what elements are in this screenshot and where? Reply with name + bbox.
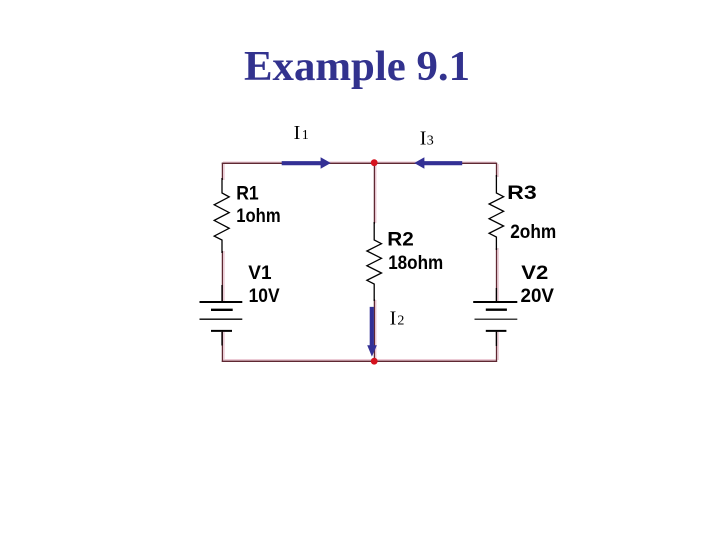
arrow I3 (current into top node, pointing left) <box>414 157 462 169</box>
battery V2 <box>473 288 517 346</box>
svg-text:I: I <box>420 127 427 149</box>
svg-text:18ohm: 18ohm <box>388 252 443 274</box>
wire right upper (top-right corner to resistor R3) <box>496 163 498 177</box>
svg-text:10V: 10V <box>249 285 280 307</box>
svg-text:2: 2 <box>397 314 404 329</box>
svg-text:20V: 20V <box>521 285 555 307</box>
svg-text:3: 3 <box>427 133 434 148</box>
wire bottom (bottom-left corner to bottom-right corner) <box>222 360 497 362</box>
wire top (node1 to node2 across top) <box>222 162 497 164</box>
wire middle upper (top node down to resistor R2) <box>373 163 375 224</box>
resistor R1 <box>214 178 229 253</box>
wire right lower (battery V2 to bottom-right corner) <box>496 332 498 362</box>
resistor R3 <box>489 175 504 250</box>
svg-text:R1: R1 <box>236 183 259 205</box>
node junction top (red dot) <box>371 159 378 166</box>
svg-text:Example 9.1: Example 9.1 <box>244 44 470 90</box>
svg-text:R3: R3 <box>507 182 537 204</box>
wire right middle (resistor R3 to battery V2) <box>496 248 498 302</box>
svg-text:V2: V2 <box>521 262 548 284</box>
svg-text:R2: R2 <box>387 228 414 250</box>
wire left upper (top-left corner to resistor R1) <box>221 163 223 180</box>
svg-text:1ohm: 1ohm <box>236 205 280 227</box>
arrow I2 (current down through R2 branch) <box>367 307 377 357</box>
wire left lower (battery V1 to bottom-left corner) <box>221 332 223 362</box>
node junction bottom (red dot) <box>371 358 378 365</box>
svg-text:I: I <box>294 122 301 144</box>
resistor R2 <box>367 222 382 301</box>
arrow I1 (current into top node, pointing right) <box>282 157 331 169</box>
svg-text:V1: V1 <box>248 262 271 284</box>
wire middle lower (resistor R2 down to bottom node) <box>373 299 375 361</box>
svg-text:2ohm: 2ohm <box>510 221 556 243</box>
wire left middle (resistor R1 to battery V1) <box>221 251 223 302</box>
svg-text:I: I <box>390 308 397 330</box>
wire halo tint (aliasing residue along wires) <box>223 162 498 360</box>
battery V1 <box>200 285 243 346</box>
svg-text:1: 1 <box>302 128 309 143</box>
